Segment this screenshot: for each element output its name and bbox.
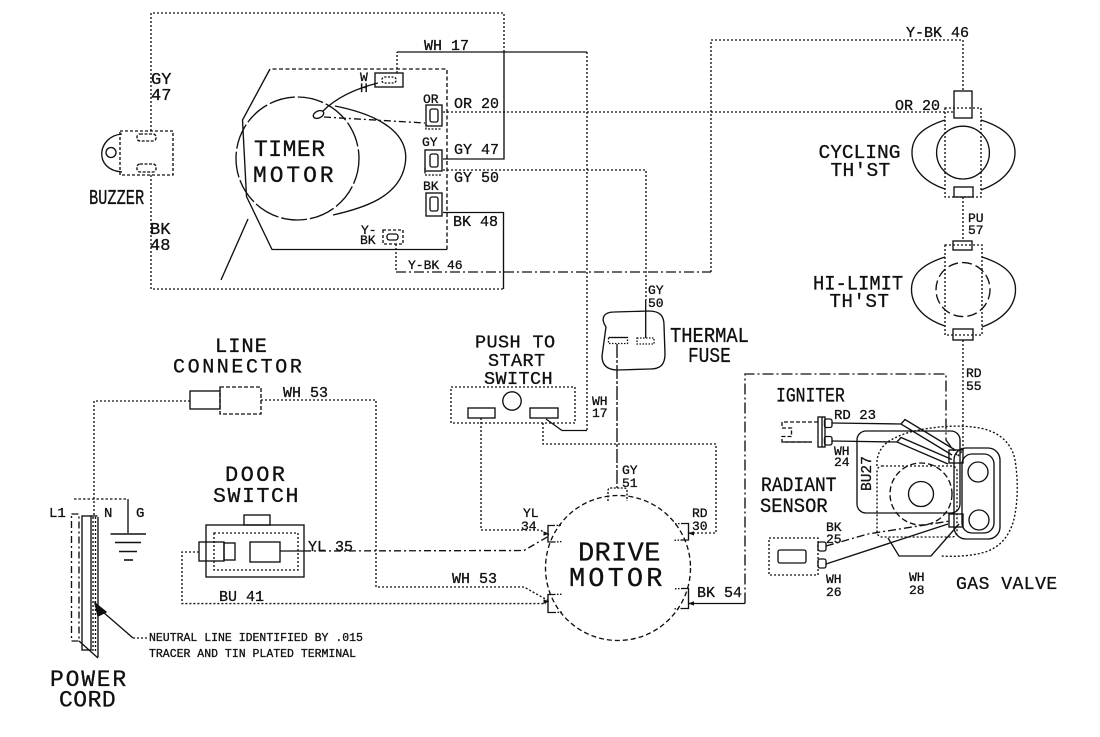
svg-text:NEUTRAL LINE IDENTIFIED BY .01: NEUTRAL LINE IDENTIFIED BY .015 xyxy=(149,632,363,645)
svg-text:WH 53: WH 53 xyxy=(452,571,497,588)
timer cam arc to W terminal xyxy=(323,83,378,111)
svg-text:BU 41: BU 41 xyxy=(219,589,264,606)
wire BK54 motor to burner box xyxy=(688,603,745,605)
svg-text:N: N xyxy=(104,506,112,522)
svg-text:MOTOR: MOTOR xyxy=(253,163,337,189)
svg-text:GY 50: GY 50 xyxy=(454,170,499,187)
svg-text:26: 26 xyxy=(826,585,842,600)
svg-text:Y-BK 46: Y-BK 46 xyxy=(408,258,463,273)
wire RD23 igniter to gas valve xyxy=(832,423,952,455)
wire BK25 sensor to gas valve xyxy=(826,521,950,546)
svg-text:FUSE: FUSE xyxy=(688,345,731,369)
wire WH53 connector to motor xyxy=(261,400,549,601)
thermal fuse F1 xyxy=(602,311,665,370)
timer terminal GY xyxy=(425,150,442,175)
timer cam dashed pointer to OR xyxy=(324,117,425,123)
wire PU57 cycling to hi-limit xyxy=(962,197,964,241)
svg-text:SWITCH: SWITCH xyxy=(213,485,300,509)
svg-text:WH 17: WH 17 xyxy=(424,38,469,55)
svg-text:28: 28 xyxy=(909,583,925,598)
svg-text:17: 17 xyxy=(592,406,608,421)
wire GY50 timer to thermal fuse xyxy=(443,170,646,300)
wire BU41 door switch to motor xyxy=(182,552,546,604)
wire YL34 switch to drive motor xyxy=(481,418,549,535)
svg-text:51: 51 xyxy=(622,476,638,491)
svg-text:H: H xyxy=(360,81,368,96)
svg-text:57: 57 xyxy=(968,223,984,238)
timer terminal OR xyxy=(426,105,442,129)
svg-text:CORD: CORD xyxy=(59,688,116,714)
timer stray diagonal xyxy=(221,219,248,280)
wire BK48 buzzer-to-timer (down, bottom, up to BK terminal) xyxy=(151,175,503,289)
svg-text:34: 34 xyxy=(521,519,537,534)
ground symbol xyxy=(111,534,147,560)
svg-text:GAS VALVE: GAS VALVE xyxy=(956,575,1058,595)
gas valve bottom outline WH28 xyxy=(888,524,959,556)
svg-text:OR 20: OR 20 xyxy=(895,98,940,115)
svg-text:SWITCH: SWITCH xyxy=(484,369,553,390)
door switch S1 xyxy=(199,515,304,577)
svg-text:BU27: BU27 xyxy=(860,456,876,491)
svg-text:GY: GY xyxy=(422,135,438,150)
cycling thermostat TH1 xyxy=(912,91,1015,197)
timer cam bulge arc xyxy=(333,106,406,215)
svg-text:WH 53: WH 53 xyxy=(283,385,328,402)
svg-text:BK: BK xyxy=(423,179,439,194)
wire L1 connector to power cord xyxy=(94,401,190,516)
svg-text:IGNITER: IGNITER xyxy=(776,385,845,408)
svg-text:TRACER AND TIN PLATED TERMINAL: TRACER AND TIN PLATED TERMINAL xyxy=(149,648,356,661)
radiant sensor RS xyxy=(769,538,826,575)
timer terminal BK xyxy=(426,193,442,216)
svg-text:BUZZER: BUZZER xyxy=(89,187,144,211)
svg-text:BK: BK xyxy=(360,233,376,248)
svg-text:24: 24 xyxy=(834,455,850,470)
wire RD30 switch to drive motor xyxy=(543,423,716,533)
drive motor M1 xyxy=(544,488,695,641)
wire OR20 timer to cycling thermostat xyxy=(443,111,953,113)
svg-text:MOTOR: MOTOR xyxy=(569,565,666,595)
timer motor circle xyxy=(236,97,359,220)
svg-text:TIMER: TIMER xyxy=(254,137,326,163)
svg-text:RD 23: RD 23 xyxy=(834,408,876,424)
timer terminal Y-BK xyxy=(383,230,403,244)
wire WH17 from timer W terminal xyxy=(396,52,398,73)
svg-text:G: G xyxy=(136,506,144,522)
svg-text:30: 30 xyxy=(692,519,708,534)
wire WH26 sensor to gas valve xyxy=(826,524,948,564)
gas valve coil frame xyxy=(857,431,960,513)
wire GY51 fuse to drive motor xyxy=(616,344,618,488)
wire Y-BK46 timer to cycling thermostat xyxy=(395,244,397,272)
igniter E1 xyxy=(782,417,832,447)
wire WH24 igniter to gas valve xyxy=(832,441,948,464)
wire G ground branch xyxy=(74,498,128,500)
wire RD55 hi-limit to gas valve xyxy=(957,340,963,457)
gas valve inner dotted frame xyxy=(877,466,957,537)
svg-text:CONNECTOR: CONNECTOR xyxy=(173,357,304,380)
svg-text:L1: L1 xyxy=(49,506,66,522)
svg-text:BK 54: BK 54 xyxy=(697,585,742,602)
svg-text:48: 48 xyxy=(150,237,170,256)
gas valve coil inner circle xyxy=(909,482,934,507)
svg-text:SENSOR: SENSOR xyxy=(760,496,828,519)
line connector J1 xyxy=(190,387,261,414)
push to start switch S2 xyxy=(451,387,575,423)
gas valve terminal plate xyxy=(949,448,1000,539)
gas valve coil circle xyxy=(890,463,952,525)
svg-text:OR: OR xyxy=(423,92,439,107)
svg-text:YL 35: YL 35 xyxy=(308,539,353,556)
gas valve GV outer body xyxy=(877,426,1017,556)
timer terminal W xyxy=(375,73,403,87)
svg-text:Y-BK 46: Y-BK 46 xyxy=(906,25,969,42)
wire GY47 buzzer-to-timer (left, top, down to GY terminal) xyxy=(151,13,504,131)
svg-text:47: 47 xyxy=(151,87,171,106)
svg-text:BK 48: BK 48 xyxy=(453,214,498,231)
svg-text:RADIANT: RADIANT xyxy=(761,474,837,497)
svg-text:TH'ST: TH'ST xyxy=(830,291,890,313)
timer motor U1 outline (pentagon) xyxy=(243,69,448,250)
timer cam pivot oval xyxy=(312,109,325,120)
buzzer BZ xyxy=(102,131,173,175)
wire BK54 burner assembly dash-dot boundary xyxy=(745,374,957,604)
hi-limit thermostat TH2 xyxy=(912,241,1016,340)
wire YL35 door switch to motor xyxy=(304,536,549,551)
svg-text:TH'ST: TH'ST xyxy=(831,160,891,182)
svg-text:GY 47: GY 47 xyxy=(454,142,499,159)
svg-text:50: 50 xyxy=(648,296,664,311)
neutral note arrow xyxy=(95,603,106,616)
svg-text:55: 55 xyxy=(966,379,982,394)
svg-text:25: 25 xyxy=(826,532,842,547)
power cord blades xyxy=(72,514,99,658)
svg-text:OR 20: OR 20 xyxy=(454,96,499,113)
